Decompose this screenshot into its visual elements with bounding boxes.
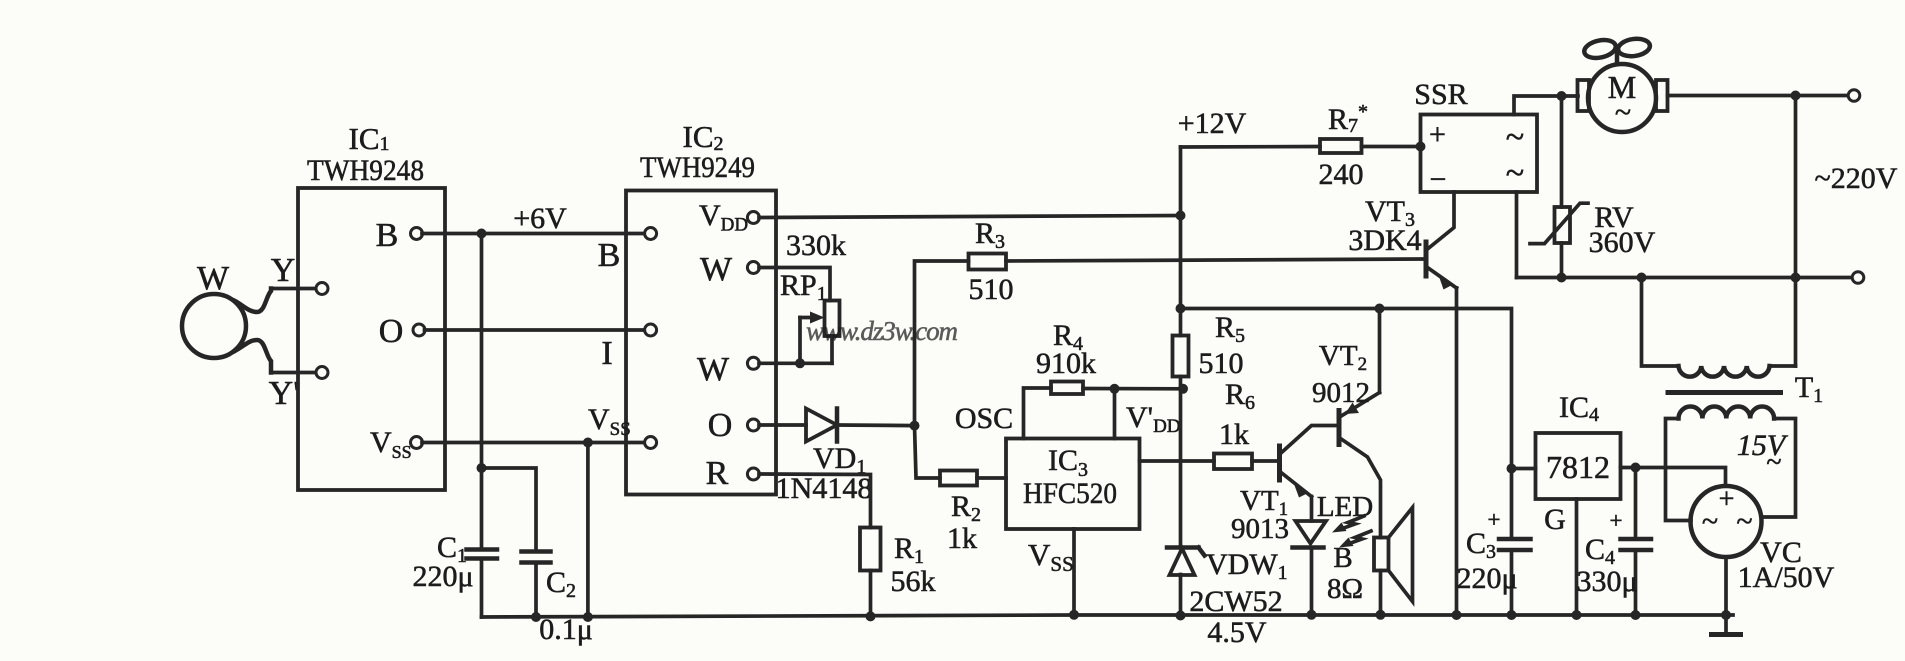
transistor VT1 base bar xyxy=(1277,446,1282,480)
svg-text:330μ: 330μ xyxy=(1576,565,1637,598)
label 56k xyxy=(891,565,936,598)
junction RV on 220V wire xyxy=(1557,273,1567,283)
RP1 bottom lead xyxy=(830,336,834,363)
junction zener on rail xyxy=(1176,611,1186,621)
T1 primary winding xyxy=(1679,366,1770,377)
SSR plus sign xyxy=(1429,118,1446,151)
label 220u xyxy=(412,560,473,593)
label +6V xyxy=(513,202,567,235)
svg-text:+6V: +6V xyxy=(513,202,567,235)
wire O pin to VD1 xyxy=(759,423,806,427)
label VT3 xyxy=(1365,195,1415,231)
VT2 emitter up to +12V wire xyxy=(1378,309,1382,393)
wire node up to R3 xyxy=(915,261,969,426)
svg-text:W: W xyxy=(697,351,730,388)
SSR box xyxy=(1421,115,1538,193)
capacitor C2 bottom lead xyxy=(534,563,538,618)
SSR tilde upper xyxy=(1506,119,1524,156)
svg-text:~: ~ xyxy=(1766,447,1781,478)
wire motor right down to T1 xyxy=(1794,96,1798,367)
label IC2 xyxy=(683,119,724,155)
IC1 pin O terminal xyxy=(413,324,425,336)
svg-text:B: B xyxy=(598,237,621,274)
wire Y to IC1 xyxy=(271,287,317,291)
svg-text:8Ω: 8Ω xyxy=(1327,573,1363,605)
LED bottom lead xyxy=(1310,548,1314,615)
IC2 pin Vss terminal xyxy=(645,437,657,449)
label C2 xyxy=(546,566,576,602)
+12V vertical line upper xyxy=(1179,147,1183,336)
wire R7 to SSR xyxy=(1362,145,1421,149)
zener VDW1 2CW52 xyxy=(1167,548,1205,576)
label 4.5V xyxy=(1207,616,1267,649)
label IC1 xyxy=(349,121,390,156)
label 1A/50V xyxy=(1738,561,1835,594)
label T1 xyxy=(1795,371,1823,407)
label SSR xyxy=(1414,78,1467,111)
junction VDD wire xyxy=(1176,211,1186,221)
terminal Y xyxy=(316,283,328,295)
junction Vss line on ground rail xyxy=(583,612,593,622)
IC2 pin W upper terminal xyxy=(747,262,759,274)
label V'DD xyxy=(1126,401,1181,437)
svg-text:9013: 9013 xyxy=(1231,513,1289,545)
svg-text:www.dz3w.com: www.dz3w.com xyxy=(806,316,958,346)
label G xyxy=(1544,503,1566,536)
junction motor right xyxy=(1791,91,1801,101)
IC2 box TWH9249 xyxy=(626,191,776,495)
VC tilde right xyxy=(1736,505,1752,538)
wire +12V to R7 xyxy=(1181,145,1321,149)
resistor R2 body xyxy=(940,471,977,486)
IC2 pin label R xyxy=(706,455,729,492)
svg-text:510: 510 xyxy=(1199,347,1244,380)
junction VT3 emitter on rail xyxy=(1452,610,1462,620)
IC3 Vss lead down xyxy=(1072,529,1076,615)
sensor probe W top lead xyxy=(235,289,271,313)
svg-text:~220V: ~220V xyxy=(1815,162,1898,195)
label 2CW52 xyxy=(1189,585,1282,618)
resistor R4 body xyxy=(1051,382,1083,395)
svg-text:I: I xyxy=(601,335,612,372)
junction VC on rail xyxy=(1721,610,1731,620)
label VD1 xyxy=(813,442,866,478)
label VC xyxy=(1760,536,1802,569)
label C4 plus xyxy=(1610,508,1623,533)
wire R6 to VT1 base xyxy=(1252,459,1278,463)
varistor RV bottom lead xyxy=(1560,243,1564,278)
motor right brush xyxy=(1656,80,1668,111)
RP1 wiper arrow xyxy=(800,312,825,324)
T1 secondary left lead xyxy=(1666,419,1692,521)
svg-text:4.5V: 4.5V xyxy=(1207,616,1267,649)
junction wiper on W wire xyxy=(795,358,805,368)
wire 220V lower xyxy=(1517,276,1853,280)
IC2 pin W lower terminal xyxy=(747,357,759,369)
svg-text:+: + xyxy=(1429,118,1446,151)
junction G on rail xyxy=(1572,610,1582,620)
junction C3 on rail xyxy=(1507,610,1517,620)
label TWH9249 xyxy=(640,151,755,184)
label 360V xyxy=(1589,226,1656,259)
svg-text:TWH9249: TWH9249 xyxy=(640,151,755,184)
label 15V xyxy=(1737,429,1789,462)
node VD1 junction xyxy=(910,421,920,431)
wire motor right to terminal xyxy=(1668,94,1849,98)
svg-text:G: G xyxy=(1544,503,1566,536)
label 0.1u xyxy=(539,613,593,646)
junction R4 stub xyxy=(1110,384,1120,394)
junction on B wire xyxy=(477,229,487,239)
IC2 pin label O xyxy=(708,407,733,444)
terminal 220V bottom xyxy=(1852,272,1864,284)
capacitor C3 plates xyxy=(1499,539,1531,550)
diode VD1 1N4148 xyxy=(806,409,837,442)
wire 7812 input xyxy=(1512,467,1536,471)
svg-text:+12V: +12V xyxy=(1178,107,1247,140)
speaker cone xyxy=(1389,508,1413,602)
SSR tilde lower xyxy=(1506,155,1524,192)
IC2 pin label B xyxy=(598,237,621,274)
label B speaker xyxy=(1333,542,1352,574)
label 220u C3 xyxy=(1456,562,1517,595)
wire +12V branch to C3 and 7812 xyxy=(1181,309,1512,540)
label RV xyxy=(1594,201,1634,234)
VT3 emitter down to rail xyxy=(1455,288,1459,615)
wire VD1 to node xyxy=(837,423,915,427)
junction capacitor branch xyxy=(477,463,487,473)
label HFC520 xyxy=(1023,477,1117,510)
resistor R1 body xyxy=(860,528,881,571)
IC2 pin B terminal xyxy=(645,228,657,240)
svg-text:+: + xyxy=(1610,508,1623,533)
svg-text:1N4148: 1N4148 xyxy=(776,472,873,505)
VT3 emitter arm with arrow xyxy=(1428,268,1457,290)
IC1 pin B terminal xyxy=(411,228,423,240)
wire W lower xyxy=(759,361,832,365)
junction IC3 Vss on rail xyxy=(1069,610,1079,620)
label C1 xyxy=(437,531,467,567)
label 1k R6 xyxy=(1219,418,1249,451)
C3 bottom lead xyxy=(1510,550,1514,615)
LED arrows xyxy=(1332,516,1371,548)
label Vss IC3 xyxy=(1028,537,1074,576)
transistor VT3 base bar xyxy=(1424,242,1429,276)
wire R2 to IC3 xyxy=(977,476,1006,480)
IC1 pin Vss terminal xyxy=(411,437,423,449)
VT1 collector arm xyxy=(1281,426,1338,454)
wire Y' to IC1 xyxy=(271,371,317,375)
wire B bus IC1 to IC2 xyxy=(422,232,646,236)
svg-text:360V: 360V xyxy=(1589,226,1656,259)
svg-text:330k: 330k xyxy=(786,229,846,262)
label W xyxy=(197,260,230,297)
junction C2 on ground rail xyxy=(531,612,541,622)
VC bottom lead xyxy=(1724,557,1728,615)
label C3 plus xyxy=(1488,507,1501,532)
label 240 xyxy=(1319,158,1364,191)
varistor RV stroke xyxy=(1530,203,1588,243)
svg-text:O: O xyxy=(379,313,404,350)
label R6 xyxy=(1225,378,1255,414)
VC plus xyxy=(1719,484,1735,515)
svg-text:9012: 9012 xyxy=(1312,377,1370,409)
svg-text:2CW52: 2CW52 xyxy=(1189,585,1282,618)
label 510 R3 xyxy=(969,273,1014,306)
svg-text:910k: 910k xyxy=(1036,347,1096,380)
junction SSR plus xyxy=(1416,142,1426,152)
svg-text:240: 240 xyxy=(1319,158,1364,191)
SSR minus sign xyxy=(1430,163,1447,196)
label +12V xyxy=(1178,107,1247,140)
ground rail bottom xyxy=(482,615,1734,617)
speaker driver box xyxy=(1374,538,1389,571)
svg-text:B: B xyxy=(376,217,399,254)
VC source circle xyxy=(1691,486,1762,557)
label C3 xyxy=(1466,527,1496,563)
label VT1 xyxy=(1240,485,1288,520)
wire 7812 right to VC xyxy=(1621,468,1726,487)
svg-text:Y: Y xyxy=(271,252,296,289)
fan stem xyxy=(1615,50,1620,64)
label VDW1 xyxy=(1206,548,1288,584)
IC1 pin label B xyxy=(376,217,399,254)
IC2 pin VDD terminal xyxy=(747,212,759,224)
varistor RV top lead xyxy=(1560,96,1564,207)
svg-text:O: O xyxy=(708,407,733,444)
capacitor C2 plates xyxy=(522,552,551,563)
resistor R5 body xyxy=(1173,336,1189,377)
svg-text:Y': Y' xyxy=(269,375,300,412)
label R1 xyxy=(894,532,924,568)
label ~220V xyxy=(1815,162,1898,195)
terminal Y' xyxy=(316,367,328,379)
wire node down to R2 xyxy=(915,426,941,478)
capacitor C1 top lead xyxy=(480,468,484,550)
junction R5 R4 node xyxy=(1178,384,1188,394)
capacitor C1 bottom lead xyxy=(480,559,484,618)
wire R3 to VT3 base xyxy=(1006,259,1425,261)
IC1 pin label O xyxy=(379,313,404,350)
junction motor wire RV xyxy=(1557,91,1567,101)
label LED xyxy=(1317,491,1373,523)
junction C4 on rail xyxy=(1631,610,1641,620)
label 510 R5 xyxy=(1199,347,1244,380)
junction R1 on ground rail xyxy=(866,611,876,621)
motor left brush xyxy=(1578,80,1590,111)
label IC3 xyxy=(1048,444,1088,481)
resistor R7 body xyxy=(1320,139,1362,153)
capacitor C4 plates xyxy=(1621,539,1652,550)
speaker bottom lead xyxy=(1379,571,1383,615)
label 1N4148 xyxy=(776,472,873,505)
7812 G lead xyxy=(1575,499,1579,615)
label 7812 xyxy=(1546,449,1610,485)
svg-text:7812: 7812 xyxy=(1546,449,1610,485)
IC1 pin label Vss xyxy=(370,426,412,462)
wire IC3 out to R6 xyxy=(1140,459,1215,463)
transistor VT2 base bar xyxy=(1337,411,1342,445)
VT2 emitter arm with arrow xyxy=(1341,393,1380,417)
wire B junction down to capacitors xyxy=(480,234,484,469)
R5 bottom lead xyxy=(1179,377,1183,548)
wire R pin to R1 xyxy=(759,474,871,528)
junction 220V lower right xyxy=(1791,273,1801,283)
IC2 pin label W upper xyxy=(700,251,733,288)
svg-text:B: B xyxy=(1333,542,1352,574)
capacitor C1 plates xyxy=(467,550,498,559)
junction T1 primary left xyxy=(1637,273,1647,283)
stub to IC3 top xyxy=(1113,389,1117,439)
svg-text:1A/50V: 1A/50V xyxy=(1738,561,1835,594)
junction +12V branch start xyxy=(1176,304,1186,314)
IC2 pin label Vss xyxy=(588,403,631,440)
junction VT2 emitter xyxy=(1375,304,1385,314)
sensor probe W bulb xyxy=(182,294,246,358)
IC2 pin R terminal xyxy=(747,468,759,480)
motor tilde xyxy=(1615,96,1631,129)
label TWH9248 xyxy=(307,154,424,187)
svg-text:~: ~ xyxy=(1506,155,1524,192)
VT1 emitter to LED xyxy=(1310,497,1314,522)
T1 core xyxy=(1668,390,1781,395)
svg-text:SSR: SSR xyxy=(1414,78,1467,111)
motor M circle xyxy=(1588,64,1656,132)
label 15V tilde xyxy=(1766,447,1781,478)
svg-text:56k: 56k xyxy=(891,565,936,598)
junction 7812 output xyxy=(1507,464,1517,474)
svg-text:HFC520: HFC520 xyxy=(1023,477,1117,510)
junction on Vss wire xyxy=(583,438,593,448)
zener bottom lead xyxy=(1179,575,1183,616)
VC tilde left xyxy=(1702,505,1718,538)
svg-text:~: ~ xyxy=(1506,119,1524,156)
IC4 7812 box xyxy=(1536,433,1621,499)
label C4 xyxy=(1585,533,1615,569)
wire Vss bus IC1 to IC2 xyxy=(422,441,646,445)
label Y xyxy=(271,252,296,289)
VT3 collector arm xyxy=(1428,192,1455,249)
svg-text:VDW1: VDW1 xyxy=(1206,548,1288,584)
resistor R6 body xyxy=(1214,454,1252,470)
label VT2 xyxy=(1319,340,1367,375)
label R3 xyxy=(975,217,1005,253)
label R4 xyxy=(1053,319,1083,355)
motor label M xyxy=(1608,69,1636,105)
label 9012 xyxy=(1312,377,1370,409)
IC2 pin label W lower xyxy=(697,351,730,388)
svg-text:220μ: 220μ xyxy=(412,560,473,593)
svg-text:LED: LED xyxy=(1317,491,1373,523)
resistor R3 body xyxy=(969,254,1007,270)
varistor RV body xyxy=(1555,207,1571,243)
svg-text:220μ: 220μ xyxy=(1456,562,1517,595)
wire O bus IC1 to IC2 xyxy=(425,328,647,332)
IC3 box HFC520 xyxy=(1006,439,1140,530)
junction LED on rail xyxy=(1307,610,1317,620)
label Y' xyxy=(269,375,300,412)
svg-text:~: ~ xyxy=(1736,505,1752,538)
label 330k xyxy=(786,229,846,262)
label R7 star xyxy=(1328,101,1368,137)
C4 bottom lead xyxy=(1634,550,1638,615)
label 8ohm xyxy=(1327,573,1363,605)
svg-text:W: W xyxy=(197,260,230,297)
R1 bottom lead xyxy=(869,571,873,617)
potentiometer RP1 body xyxy=(825,301,840,337)
VT1 emitter arm with arrow xyxy=(1281,473,1312,498)
wire C2 branch xyxy=(482,468,537,552)
IC2 pin O terminal xyxy=(747,419,759,431)
RP1 wiper wire down xyxy=(798,318,802,364)
SSR bottom lead to 220V wire xyxy=(1515,192,1519,278)
T1 primary left lead xyxy=(1642,278,1679,367)
label 3DK4 xyxy=(1348,224,1421,257)
svg-text:~: ~ xyxy=(1615,96,1631,129)
svg-text:+: + xyxy=(1719,484,1735,515)
svg-text:~: ~ xyxy=(1702,505,1718,538)
ground symbol xyxy=(1712,615,1741,635)
terminal 220V top xyxy=(1848,90,1860,102)
sensor probe W bottom lead xyxy=(235,340,271,373)
R4 left lead to IC3 top xyxy=(1024,388,1052,439)
svg-text:W: W xyxy=(700,251,733,288)
SSR top lead to motor wire xyxy=(1514,96,1578,115)
label R2 xyxy=(951,490,981,526)
R4 right lead xyxy=(1083,387,1183,391)
watermark www.dz3w.com xyxy=(806,316,958,346)
svg-text:+: + xyxy=(1488,507,1501,532)
fan blade left xyxy=(1583,37,1618,60)
svg-text:1k: 1k xyxy=(947,522,977,555)
label 1k R2 xyxy=(947,522,977,555)
junction C4 xyxy=(1631,463,1641,473)
fan blade right xyxy=(1617,37,1651,58)
T1 secondary winding xyxy=(1679,407,1775,419)
label 330u xyxy=(1576,565,1637,598)
label OSC xyxy=(955,402,1013,435)
IC2 pin I terminal xyxy=(645,324,657,336)
svg-text:R: R xyxy=(706,455,729,492)
label R5 xyxy=(1215,311,1245,347)
svg-text:3DK4: 3DK4 xyxy=(1348,224,1421,257)
C4 top lead xyxy=(1634,468,1638,540)
LED diode xyxy=(1293,521,1327,548)
wire VDD to +12V line xyxy=(759,216,1181,218)
label RP1 xyxy=(780,269,827,305)
label IC4 xyxy=(1559,391,1599,426)
IC2 pin label VDD xyxy=(699,199,748,236)
T1 secondary right lead xyxy=(1762,419,1796,518)
IC2 pin label I xyxy=(601,335,612,372)
label 9013 xyxy=(1231,513,1289,545)
svg-text:−: − xyxy=(1430,163,1447,196)
svg-text:510: 510 xyxy=(969,273,1014,306)
svg-text:OSC: OSC xyxy=(955,402,1013,435)
wire Vss junction down to rail xyxy=(586,443,590,618)
label 910k xyxy=(1036,347,1096,380)
T1 primary right lead xyxy=(1770,364,1796,368)
junction speaker on rail xyxy=(1376,610,1386,620)
svg-text:1k: 1k xyxy=(1219,418,1249,451)
VT2 collector arm xyxy=(1341,439,1381,538)
IC1 box TWH9248 xyxy=(298,188,445,490)
svg-text:TWH9248: TWH9248 xyxy=(307,154,424,187)
wire W upper to RP1 xyxy=(759,268,830,301)
